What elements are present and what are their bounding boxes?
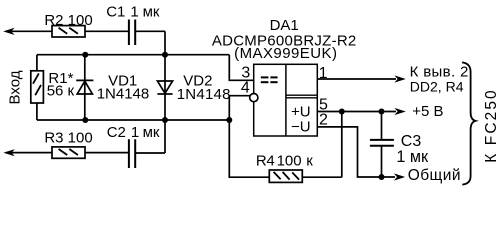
svg-text:1: 1 — [130, 3, 138, 20]
svg-text:мк: мк — [143, 3, 160, 20]
svg-text:С2: С2 — [107, 124, 126, 141]
svg-text:2: 2 — [319, 112, 328, 129]
svg-text:Общий: Общий — [408, 167, 461, 184]
svg-text:R2 100: R2 100 — [44, 12, 92, 29]
svg-text:DA1: DA1 — [270, 17, 299, 34]
svg-text:К FC250: К FC250 — [483, 88, 500, 163]
svg-text:56 к: 56 к — [47, 83, 75, 100]
svg-text:100: 100 — [277, 152, 302, 169]
svg-text:−U: −U — [291, 118, 311, 135]
svg-text:DD2, R4: DD2, R4 — [410, 79, 464, 95]
svg-text:к: к — [306, 152, 313, 169]
svg-text:+5 В: +5 В — [412, 103, 443, 120]
svg-text:R3 100: R3 100 — [44, 129, 92, 146]
svg-text:мк: мк — [410, 148, 429, 166]
svg-text:4: 4 — [241, 80, 250, 97]
svg-text:1N4148: 1N4148 — [97, 85, 150, 102]
svg-text:1: 1 — [319, 65, 328, 82]
svg-text:1N4148: 1N4148 — [177, 86, 231, 103]
svg-text:1: 1 — [396, 148, 405, 166]
svg-text:1: 1 — [131, 124, 139, 141]
svg-text:Вход: Вход — [7, 70, 24, 104]
svg-text:C1: C1 — [106, 3, 125, 20]
svg-text:мк: мк — [143, 124, 160, 141]
svg-text:(MAX999EUK): (MAX999EUK) — [234, 45, 337, 62]
svg-text:R4: R4 — [256, 152, 275, 169]
